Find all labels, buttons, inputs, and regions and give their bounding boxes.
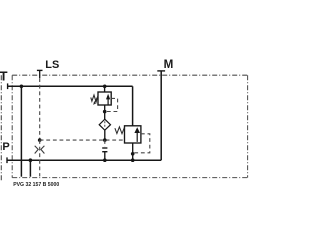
wire T bus (8, 85, 133, 87)
wire LS pilot line down (dashed) (39, 78, 41, 140)
frame bottom border (12, 177, 247, 179)
plugged connection bars (102, 147, 107, 149)
frame right border (247, 75, 249, 177)
wire U1 top stem (104, 86, 106, 92)
U1 spring (91, 95, 98, 102)
U2 arrow (136, 132, 138, 142)
node LS junction (38, 138, 42, 142)
wire P channel stub down (29, 160, 31, 177)
wire dashed below LS junction (104, 140, 106, 147)
relief valve U1 (LS relief) body (98, 92, 111, 105)
node plug P junction (103, 158, 107, 162)
node U2 pilot junction (131, 152, 135, 156)
wire T bus corner down to valve U2 (132, 86, 134, 126)
wire LS horizontal (dashed) to valve U2 (40, 139, 125, 141)
wire U1 bottom stem (104, 105, 106, 119)
svg-text:P: P (2, 141, 9, 153)
port T tick (7, 83, 9, 89)
wire LS dashed below junction (39, 140, 41, 176)
svg-text:LS: LS (45, 59, 59, 71)
wire M line down to P bus (160, 71, 162, 160)
U1 pilot line (dashed) (105, 98, 118, 111)
U1 adjustment arrow (94, 96, 98, 103)
filter F1 (99, 119, 110, 130)
svg-text:T: T (0, 69, 8, 84)
orifice in LS line (35, 146, 39, 154)
node LS line junction (103, 138, 107, 142)
wire P bus (7, 159, 161, 161)
port LS tick (37, 69, 43, 71)
neighbor module border (left edge) (0, 75, 2, 181)
node U1 top junction (103, 85, 107, 89)
wire plug to P bus (104, 152, 106, 161)
port P tick (6, 157, 8, 163)
relief valve U2 (main relief) body (125, 126, 141, 143)
node P-junction (29, 158, 33, 162)
node U1 pilot junction (103, 110, 107, 114)
U1 arrow (107, 99, 109, 105)
wire filter to LS line (104, 130, 106, 140)
wire LS port stem (39, 70, 41, 78)
U2 pilot line (dashed) (133, 134, 150, 153)
node T-junction (20, 85, 24, 89)
frame left border (11, 75, 13, 177)
node U2 P-bus junction (131, 158, 135, 162)
frame top border (12, 74, 247, 76)
svg-text:PVG 32 157 B 5000: PVG 32 157 B 5000 (13, 182, 59, 188)
wire T channel stub down (20, 86, 22, 176)
U2 spring (115, 127, 125, 134)
svg-text:M: M (164, 58, 174, 71)
port M tick (157, 70, 165, 72)
wire U2 bottom stem (132, 143, 134, 160)
